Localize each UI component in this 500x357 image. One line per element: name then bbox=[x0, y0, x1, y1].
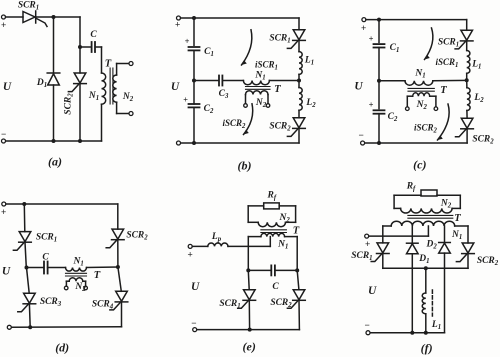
label + C2 (c) bbox=[369, 100, 374, 109]
wire SCR2 cathode (d) bbox=[117, 240, 119, 267]
node capacitor tap (a) bbox=[78, 45, 82, 49]
node SCR3 bottom (d) bbox=[28, 325, 32, 329]
thyristor SCR4 (d) bbox=[110, 291, 128, 310]
wire N1 right leg (e) bbox=[296, 237, 298, 271]
svg-text:C2: C2 bbox=[204, 104, 214, 115]
inductor L2 (b) bbox=[299, 88, 302, 111]
capacitor C (e) bbox=[271, 265, 275, 275]
wire N2 right lead (b) bbox=[267, 95, 269, 104]
wire SCR4 anode (d) bbox=[118, 267, 121, 291]
svg-text:N2: N2 bbox=[440, 199, 452, 210]
label (e) bbox=[243, 340, 256, 354]
label N1 (d) bbox=[73, 257, 84, 268]
label U (c) bbox=[354, 81, 363, 93]
diode D1 (f) bbox=[407, 243, 419, 254]
node C1 top (c) bbox=[377, 18, 381, 22]
transformer feedback N2 (f) bbox=[394, 208, 460, 213]
svg-text:(b): (b) bbox=[238, 159, 252, 173]
svg-text:−: − bbox=[1, 129, 6, 139]
label T (f) bbox=[454, 213, 461, 224]
label + C1 (c) bbox=[369, 34, 374, 43]
wire node to L2 (c) bbox=[466, 80, 468, 88]
label C (d) bbox=[42, 253, 49, 263]
label SCR1 (a) bbox=[18, 1, 39, 12]
inductor L1 (b) bbox=[299, 52, 302, 75]
node junction top (a) bbox=[52, 15, 56, 19]
wire L2 to SCR2 (c) bbox=[466, 111, 468, 119]
label SCR1 (c) bbox=[438, 38, 459, 49]
svg-text:(a): (a) bbox=[48, 155, 62, 169]
wire SCR1 to L1 (c) bbox=[466, 41, 468, 51]
wire top-left (a) bbox=[6, 16, 24, 18]
diode D1 (a) bbox=[47, 73, 60, 85]
svg-text:L2: L2 bbox=[473, 93, 484, 104]
svg-text:−: − bbox=[191, 318, 196, 328]
wire N2 right lead (d) bbox=[85, 281, 87, 286]
wire C2 top (c) bbox=[378, 81, 380, 109]
wire L1 to node (b) bbox=[298, 74, 300, 80]
svg-text:+: + bbox=[183, 95, 188, 104]
capacitor C2 (b) bbox=[189, 104, 200, 107]
capacitor C2 (c) bbox=[374, 110, 385, 113]
transformer primary N1 (c) bbox=[405, 81, 433, 86]
transformer secondary N2 (c) bbox=[407, 93, 436, 96]
terminal + input (e) bbox=[187, 244, 192, 259]
label U (d) bbox=[2, 266, 11, 278]
wire top rail (c) bbox=[366, 19, 467, 21]
arrow iSCR1 (c) bbox=[425, 28, 433, 60]
thyristor SCR2 (c) bbox=[456, 118, 474, 137]
label U (a) bbox=[3, 81, 12, 93]
svg-text:SCR1: SCR1 bbox=[36, 233, 57, 244]
svg-text:U: U bbox=[2, 266, 11, 278]
node midpoint (c) bbox=[377, 79, 381, 83]
svg-text:iSCR2: iSCR2 bbox=[223, 118, 247, 130]
arrow iSCR2 (b) bbox=[244, 104, 253, 135]
wire SCR3 anode (d) bbox=[27, 268, 30, 294]
transformer secondary N2 (b) bbox=[246, 91, 269, 95]
transformer primary N1 (a) bbox=[102, 73, 106, 104]
wire input to Lp (e) bbox=[192, 245, 208, 247]
svg-text:+: + bbox=[1, 207, 6, 217]
terminal output bottom (a) bbox=[129, 112, 133, 116]
label + C1 (b) bbox=[185, 37, 190, 46]
svg-text:C1: C1 bbox=[390, 43, 400, 54]
label SCR1 (e) bbox=[219, 299, 240, 310]
wire Rf to N2 right (e) bbox=[279, 206, 295, 222]
transformer primary N1 (d) bbox=[66, 268, 87, 272]
svg-text:SCR2: SCR2 bbox=[64, 93, 75, 115]
svg-text:C1: C1 bbox=[204, 47, 214, 58]
wire Rf loop left (f) bbox=[393, 195, 395, 208]
node right mid (b) bbox=[297, 79, 301, 83]
capacitor C1 (c) bbox=[374, 44, 385, 47]
label U (e) bbox=[191, 281, 200, 293]
wire D1 anode (a) bbox=[53, 17, 55, 73]
wire SCR1 cathode (f) bbox=[382, 254, 384, 269]
thyristor SCR1 (d) bbox=[13, 232, 31, 251]
label N2 (a) bbox=[122, 92, 134, 103]
label U (b) bbox=[171, 81, 180, 93]
wire N1 to right node (d) bbox=[87, 266, 118, 269]
wire SCR2 cathode (b) bbox=[298, 128, 300, 143]
node mid right (d) bbox=[116, 265, 120, 269]
wire N1 left leg (e) bbox=[247, 237, 249, 271]
terminal + input (d) bbox=[1, 202, 6, 217]
transformer primary N1 (b) bbox=[243, 81, 269, 85]
wire bottom rail (c) bbox=[365, 142, 468, 144]
wire Rf loop right (f) bbox=[459, 195, 461, 208]
terminal - input (d) bbox=[7, 325, 11, 329]
label D2 (f) bbox=[425, 240, 437, 251]
svg-text:SCR3: SCR3 bbox=[40, 297, 62, 308]
capacitor C3 (b) bbox=[219, 76, 222, 86]
inductor Lp (e) bbox=[208, 243, 228, 246]
inductor L1 (f) bbox=[422, 293, 426, 314]
svg-text:U: U bbox=[171, 81, 180, 93]
wire SCR2 cathode (e) bbox=[298, 300, 300, 329]
wire + feed (f) bbox=[369, 235, 429, 237]
thyristor SCR3 (d) bbox=[18, 293, 36, 312]
wire SCR2 anode (f) bbox=[467, 226, 469, 243]
thyristor SCR2 (e) bbox=[287, 290, 305, 309]
wire top rail (d) bbox=[6, 203, 118, 205]
svg-text:C2: C2 bbox=[388, 112, 398, 123]
svg-text:D1: D1 bbox=[418, 254, 429, 265]
svg-text:C3: C3 bbox=[219, 89, 229, 100]
wire cathode rail (f) bbox=[383, 267, 468, 269]
thyristor SCR1 (a) bbox=[23, 11, 47, 27]
svg-text:SCR4: SCR4 bbox=[92, 300, 114, 311]
thyristor SCR2 (f) bbox=[456, 243, 474, 262]
thyristor SCR2 (d) bbox=[106, 229, 124, 248]
svg-text:N1: N1 bbox=[254, 71, 265, 82]
label iSCR2 (b) bbox=[223, 118, 247, 130]
svg-text:(f): (f) bbox=[421, 341, 433, 355]
svg-text:N1: N1 bbox=[73, 257, 84, 268]
terminal N2 left (c) bbox=[406, 107, 410, 111]
node C left (e) bbox=[246, 268, 250, 272]
transformer secondary N2 (a) bbox=[113, 75, 117, 102]
wire L1 to node (c) bbox=[466, 73, 468, 80]
svg-text:T: T bbox=[454, 213, 461, 224]
label SCR2 (c) bbox=[472, 135, 494, 146]
node SCR1 top (d) bbox=[22, 202, 26, 206]
wire SCR1 anode (d) bbox=[23, 204, 26, 232]
transformer core (b) bbox=[246, 87, 271, 90]
wire top rail (b) bbox=[181, 17, 300, 19]
svg-text:D2: D2 bbox=[425, 240, 437, 251]
terminal - input (e) bbox=[191, 318, 197, 332]
thyristor SCR2 (b) bbox=[287, 118, 305, 137]
label SCR4 (d) bbox=[92, 300, 114, 311]
wire mid to N1 (c) bbox=[379, 80, 405, 82]
svg-text:−: − bbox=[364, 320, 369, 330]
wire N1 bottom (a) bbox=[101, 104, 103, 141]
wire L1 top lead (f) bbox=[425, 268, 427, 293]
resistor Rf (f) bbox=[421, 190, 437, 196]
wire N1 to right rail (b) bbox=[269, 80, 299, 82]
svg-text:SCR1: SCR1 bbox=[269, 34, 290, 45]
wire SCR3 cathode (d) bbox=[28, 304, 31, 327]
label T (e) bbox=[293, 226, 300, 237]
node midpoint (b) bbox=[192, 79, 196, 83]
wire SCR2 cathode (f) bbox=[467, 254, 469, 269]
node SCR2 bottom (a) bbox=[78, 139, 82, 143]
label N2 (e) bbox=[279, 213, 291, 224]
wire SCR1 anode (c) bbox=[466, 20, 468, 31]
wire N2 bottom to terminal (a) bbox=[117, 102, 129, 113]
label L1 (f) bbox=[431, 320, 441, 331]
svg-text:N2: N2 bbox=[122, 92, 134, 103]
label T (a) bbox=[105, 59, 112, 70]
label N2 (c) bbox=[416, 100, 428, 111]
svg-text:D1: D1 bbox=[36, 78, 47, 89]
wire C2 top (b) bbox=[193, 81, 195, 105]
node SCR1 bottom (e) bbox=[248, 328, 252, 332]
svg-text:T: T bbox=[293, 226, 300, 237]
svg-text:N1: N1 bbox=[88, 91, 99, 102]
label (d) bbox=[55, 341, 69, 355]
svg-text:N1: N1 bbox=[277, 240, 288, 251]
wire bottom rail (f) bbox=[370, 332, 445, 334]
svg-text:C: C bbox=[42, 253, 49, 263]
svg-text:SCR2: SCR2 bbox=[270, 298, 292, 309]
svg-text:C: C bbox=[90, 30, 97, 40]
terminal N2 right (d) bbox=[84, 286, 88, 290]
svg-text:+: + bbox=[369, 100, 374, 109]
wire SCR1 anode (b) bbox=[298, 18, 300, 30]
label N2 (d) bbox=[74, 282, 86, 293]
label C1 (b) bbox=[204, 47, 214, 58]
wire L2 to SCR2 (b) bbox=[298, 110, 300, 118]
terminal N2 right (b) bbox=[266, 104, 270, 108]
label D1 (a) bbox=[36, 78, 47, 89]
thyristor SCR1 (b) bbox=[287, 30, 305, 49]
node right mid (c) bbox=[465, 78, 469, 82]
node D1 bottom (a) bbox=[52, 139, 56, 143]
thyristor SCR1 (c) bbox=[455, 30, 473, 49]
wire N1 to right rail (c) bbox=[433, 79, 467, 81]
terminal + input (c) bbox=[361, 18, 366, 33]
label L2 (b) bbox=[305, 98, 316, 109]
svg-text:Rf: Rf bbox=[406, 182, 416, 193]
svg-text:N2: N2 bbox=[255, 98, 267, 109]
wire C1 bottom (b) bbox=[193, 50, 195, 80]
terminal - input (c) bbox=[358, 130, 364, 145]
svg-text:L1: L1 bbox=[471, 60, 481, 71]
label C3 (b) bbox=[219, 89, 229, 100]
wire C1 top (c) bbox=[378, 20, 380, 43]
wire centre tap (e) bbox=[269, 237, 271, 247]
label C (a) bbox=[90, 30, 97, 40]
wire top rail (a) bbox=[37, 16, 81, 18]
wire SCR1 to L1 (b) bbox=[298, 40, 300, 51]
svg-text:Lp: Lp bbox=[211, 232, 222, 243]
label iSCR1 (c) bbox=[436, 57, 459, 69]
svg-text:T: T bbox=[440, 85, 447, 96]
svg-text:SCR1: SCR1 bbox=[18, 1, 39, 12]
inductor L2 (c) bbox=[467, 88, 470, 111]
label N1 (e) bbox=[277, 240, 288, 251]
svg-text:N1: N1 bbox=[451, 230, 462, 241]
label D1 (f) bbox=[418, 254, 429, 265]
wire N2 left lead (c) bbox=[406, 96, 408, 107]
svg-text:(c): (c) bbox=[413, 158, 426, 172]
wire capacitor right (a) bbox=[95, 47, 101, 73]
thyristor SCR1 (f) bbox=[371, 243, 389, 262]
label (a) bbox=[48, 155, 62, 169]
label N2 (f) bbox=[440, 199, 452, 210]
wire D1 cathode (a) bbox=[53, 85, 55, 141]
resistor Rf (e) bbox=[264, 203, 280, 209]
wire capacitor left (a) bbox=[80, 46, 91, 48]
wire SCR1 cathode (d) bbox=[25, 242, 26, 267]
label (c) bbox=[413, 158, 426, 172]
svg-text:+: + bbox=[369, 34, 374, 43]
transformer secondary N2 (d) bbox=[66, 278, 85, 282]
wire bottom rail (a) bbox=[6, 140, 102, 142]
diode D2 (f) bbox=[439, 243, 451, 254]
wire SCR4 cathode (d) bbox=[121, 302, 123, 327]
label L1 (c) bbox=[471, 60, 481, 71]
wire centre tap (f) bbox=[427, 226, 429, 236]
inductor L1 (c) bbox=[467, 51, 470, 74]
label C2 (c) bbox=[388, 112, 398, 123]
wire SCR2 cathode (a) bbox=[79, 84, 81, 141]
wire D2 bottom (f) bbox=[444, 253, 446, 333]
terminal + input (b) bbox=[175, 16, 181, 30]
svg-text:iSCR1: iSCR1 bbox=[436, 57, 459, 69]
wire L1 bottom lead (f) bbox=[425, 314, 427, 333]
wire Rf loop top (f) bbox=[394, 194, 460, 196]
label L2 (c) bbox=[473, 93, 484, 104]
wire D1 bottom (f) bbox=[411, 254, 413, 333]
svg-text:SCR1: SCR1 bbox=[438, 38, 459, 49]
svg-text:SCR1: SCR1 bbox=[351, 251, 372, 262]
svg-text:−: − bbox=[358, 130, 363, 140]
svg-text:T: T bbox=[105, 59, 112, 70]
wire C3 to N1 (b) bbox=[222, 80, 243, 82]
svg-text:+: + bbox=[175, 20, 180, 30]
label Rf (e) bbox=[266, 191, 276, 202]
terminal N2 left (b) bbox=[244, 104, 248, 108]
label Lp (e) bbox=[211, 232, 222, 243]
capacitor C (d) bbox=[44, 262, 48, 274]
node D1 bottom (f) bbox=[410, 331, 414, 335]
wire SCR1 anode (e) bbox=[247, 270, 250, 289]
transformer core (e) bbox=[261, 230, 287, 233]
terminal output top (a) bbox=[129, 62, 133, 66]
transformer core (f) bbox=[408, 215, 453, 218]
transformer primary N1 (e) bbox=[248, 233, 297, 236]
wire SCR1 anode (f) bbox=[382, 226, 384, 243]
wire N2 left to Rf (e) bbox=[248, 206, 264, 222]
label SCR2 (d) bbox=[126, 231, 148, 242]
label SCR2 (e) bbox=[270, 298, 292, 309]
transformer core (d) bbox=[66, 273, 87, 276]
label T (c) bbox=[440, 85, 447, 96]
svg-text:U: U bbox=[354, 81, 363, 93]
node C right (e) bbox=[295, 268, 299, 272]
label T (b) bbox=[274, 84, 281, 95]
svg-text:T: T bbox=[94, 270, 101, 281]
svg-text:T: T bbox=[274, 84, 281, 95]
label N1 (a) bbox=[88, 91, 99, 102]
label (f) bbox=[421, 341, 433, 355]
svg-text:L2: L2 bbox=[305, 98, 316, 109]
node mid left (d) bbox=[25, 266, 29, 270]
svg-text:N1: N1 bbox=[414, 69, 425, 80]
terminal + input (f) bbox=[365, 234, 370, 249]
wire D1 top (f) bbox=[411, 226, 413, 243]
label Rf (f) bbox=[406, 182, 416, 193]
svg-text:N2: N2 bbox=[416, 100, 428, 111]
node L1 top (f) bbox=[424, 266, 428, 270]
label SCR1 (f) bbox=[351, 251, 372, 262]
wire node to L2 (b) bbox=[298, 81, 300, 88]
node L1 bottom (f) bbox=[424, 331, 428, 335]
wire mid to C3 (b) bbox=[194, 80, 219, 82]
svg-text:iSCR2: iSCR2 bbox=[414, 123, 438, 135]
transformer primary N1 (f) bbox=[383, 221, 468, 226]
wire N2 right lead (c) bbox=[435, 96, 437, 107]
svg-text:SCR2: SCR2 bbox=[472, 135, 494, 146]
wire SCR2 anode (e) bbox=[297, 270, 299, 289]
wire bottom rail (d) bbox=[11, 326, 121, 329]
svg-text:U: U bbox=[191, 281, 200, 293]
terminal - input (a) bbox=[1, 129, 6, 143]
wire bottom rail (e) bbox=[197, 329, 300, 331]
wire C1 bottom (c) bbox=[378, 48, 380, 81]
label N2 (b) bbox=[255, 98, 267, 109]
label T (d) bbox=[94, 270, 101, 281]
svg-text:+: + bbox=[1, 20, 6, 30]
capacitor C (a) bbox=[92, 42, 95, 52]
wire SCR2 branch top (a) bbox=[79, 17, 81, 73]
label C1 (c) bbox=[390, 43, 400, 54]
arrow iSCR1 (b) bbox=[242, 30, 252, 65]
wire SCR2 cathode (c) bbox=[466, 129, 468, 143]
label U (f) bbox=[368, 285, 377, 297]
label SCR3 (d) bbox=[40, 297, 62, 308]
svg-text:N2: N2 bbox=[279, 213, 291, 224]
label SCR2 (f) bbox=[477, 256, 499, 267]
capacitor C1 (b) bbox=[189, 47, 200, 50]
terminal N2 right (c) bbox=[434, 107, 438, 111]
svg-text:N2: N2 bbox=[74, 282, 86, 293]
wire C2 bottom (b) bbox=[193, 107, 195, 143]
wire N2 left lead (d) bbox=[65, 281, 67, 286]
thyristor SCR2 (a) bbox=[68, 73, 86, 92]
svg-text:(d): (d) bbox=[55, 341, 69, 355]
wire C left lead (e) bbox=[248, 269, 271, 271]
node C2 bottom (b) bbox=[192, 141, 196, 145]
arrow iSCR2 (c) bbox=[438, 104, 450, 140]
svg-text:+: + bbox=[365, 239, 370, 249]
label C (e) bbox=[272, 282, 279, 292]
transformer core (c) bbox=[408, 88, 434, 91]
label SCR1 (d) bbox=[36, 233, 57, 244]
wire SCR1 cathode (e) bbox=[248, 300, 250, 329]
terminal - input (f) bbox=[364, 320, 370, 335]
wire Lp to tap (e) bbox=[228, 245, 270, 247]
label (b) bbox=[238, 159, 252, 173]
svg-text:Rf: Rf bbox=[266, 191, 276, 202]
svg-text:SCR2: SCR2 bbox=[126, 231, 148, 242]
transformer core (a) bbox=[110, 68, 113, 104]
svg-text:SCR1: SCR1 bbox=[219, 299, 240, 310]
